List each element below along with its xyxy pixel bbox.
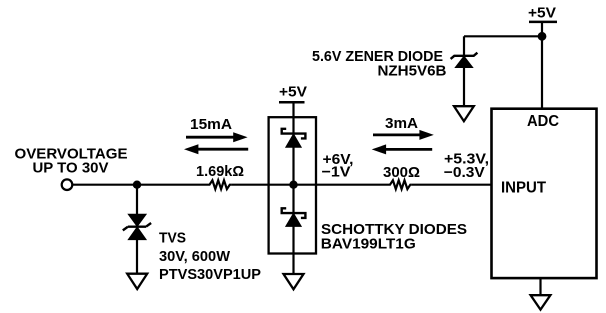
resistor R1 1.69k zigzag	[208, 180, 231, 189]
arrow: 3mA rightward	[373, 130, 434, 140]
arrow: 3mA leftward	[372, 144, 433, 154]
node B: schottky diode common node dot	[289, 181, 297, 189]
svg-text:TVS: TVS	[159, 229, 186, 246]
arrow: 15mA leftward	[184, 144, 248, 154]
svg-text:NZH5V6B: NZH5V6B	[378, 63, 447, 80]
power +5V supply bar (top right)	[529, 21, 557, 24]
svg-text:+5V: +5V	[528, 4, 556, 21]
resistor R2 300 ohm zigzag	[389, 180, 412, 189]
svg-text:300Ω: 300Ω	[383, 164, 420, 181]
svg-text:30V, 600W: 30V, 600W	[159, 248, 231, 265]
svg-text:INPUT: INPUT	[501, 180, 547, 197]
TVS diode D1 (bidirectional)	[123, 214, 151, 239]
wire: R1 to schottky common node	[231, 184, 293, 186]
wire: TVS branch vertical	[136, 185, 138, 215]
node: overvoltage input terminal	[62, 179, 73, 190]
svg-text:ADC: ADC	[527, 113, 559, 130]
ground (under TVS)	[127, 274, 147, 289]
zener diode D4 NZH5V6B	[451, 53, 478, 68]
svg-text:−0.3V: −0.3V	[444, 164, 485, 181]
ADC block U2	[492, 109, 597, 278]
schottky diode D2 (top, node to +5V)	[282, 129, 306, 148]
wire: down to zener cathode	[463, 36, 465, 56]
wire: +5V bar down through schottky package to ground	[292, 102, 294, 274]
svg-text:UP TO 30V: UP TO 30V	[33, 160, 109, 177]
node A: junction dot at TVS branch	[133, 181, 141, 189]
wire: R2 to ADC input pin	[412, 184, 492, 186]
ground (under ADC)	[531, 295, 551, 309]
wire: junction to resistor R1	[137, 184, 208, 186]
svg-text:PTVS30VP1UP: PTVS30VP1UP	[159, 266, 261, 283]
wire: terminal to TVS junction	[73, 184, 137, 186]
schottky diode D3 (bottom, ground to node)	[282, 208, 306, 226]
arrow: 15mA rightward	[186, 132, 248, 142]
svg-text:15mA: 15mA	[190, 116, 232, 133]
svg-text:3mA: 3mA	[385, 115, 418, 132]
svg-text:1.69kΩ: 1.69kΩ	[196, 163, 244, 180]
ground (under schottky package)	[284, 274, 304, 289]
svg-text:+5V: +5V	[279, 84, 307, 101]
schottky package U1 outline box	[269, 117, 316, 253]
wire: TVS to ground	[136, 240, 138, 274]
node C: junction dot at +5V branch to zener	[538, 32, 547, 41]
svg-text:BAV199LT1G: BAV199LT1G	[321, 236, 416, 253]
ground (under zener)	[454, 106, 474, 121]
svg-text:−1V: −1V	[322, 163, 351, 180]
wire: ADC bottom to ground	[539, 278, 541, 295]
wire: junction to zener branch horizontal	[464, 35, 542, 37]
wire: schottky node to resistor R2	[294, 184, 389, 186]
power +5V supply bar (schottky clamp)	[279, 101, 305, 104]
wire: +5V bar down to ADC top	[541, 22, 543, 109]
wire: zener anode to ground	[463, 68, 465, 107]
